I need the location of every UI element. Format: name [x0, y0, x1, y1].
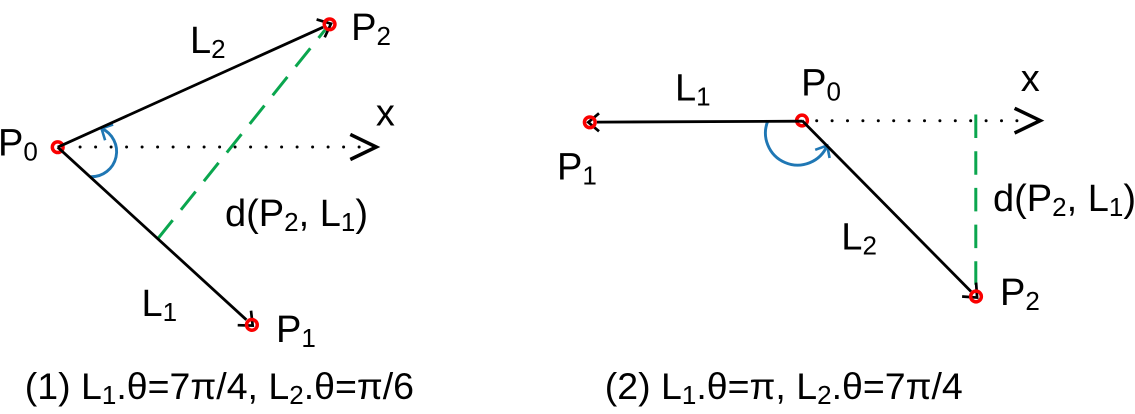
svg-text:x: x	[376, 93, 395, 135]
svg-text:(1) L1.θ=7π/4, L2.θ=π/6: (1) L1.θ=7π/4, L2.θ=π/6	[25, 365, 414, 410]
svg-text:x: x	[1021, 58, 1040, 100]
svg-text:(2) L1.θ=π, L2.θ=7π/4: (2) L1.θ=π, L2.θ=7π/4	[605, 365, 963, 410]
